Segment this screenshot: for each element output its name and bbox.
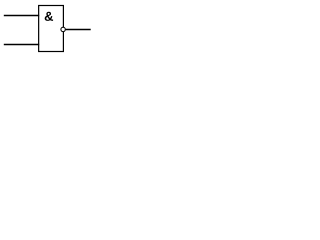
wire input A [4, 15, 39, 17]
label & [45, 12, 53, 21]
wire output [66, 29, 91, 31]
output bubble [61, 27, 65, 31]
gate body U1 [39, 6, 64, 52]
wire input B [4, 44, 39, 46]
NAND gate U1 (IEC symbol) [0, 0, 131, 82]
